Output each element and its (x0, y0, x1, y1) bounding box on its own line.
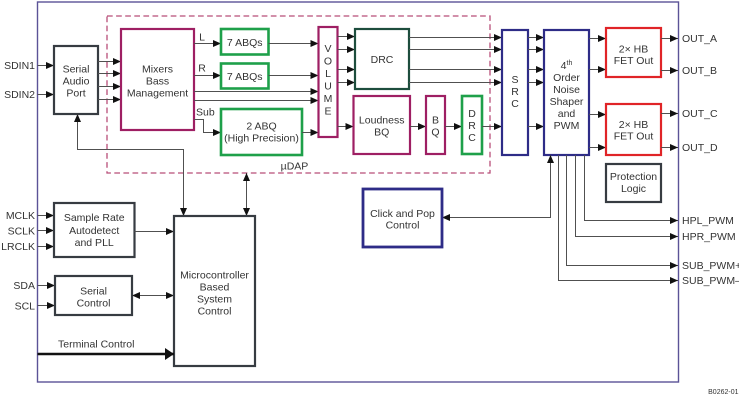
wire SAP to Mixers 2 (98, 73, 121, 75)
svg-text:SCLK: SCLK (8, 226, 35, 238)
svg-text:7 ABQs: 7 ABQs (227, 71, 263, 83)
svg-text:OUT_A: OUT_A (682, 33, 717, 45)
wire VOLUME to DRC 3 (338, 69, 356, 71)
svg-text:HPL_PWM: HPL_PWM (682, 215, 734, 227)
svg-text:Protection: Protection (610, 171, 657, 183)
block BQ (426, 96, 445, 154)
wire NS to FET1 a (589, 38, 606, 40)
wire SRC to NS 2 (528, 49, 544, 51)
svg-text:E: E (324, 106, 331, 118)
svg-text:U: U (324, 81, 332, 93)
svg-text:Mixers: Mixers (142, 64, 173, 76)
svg-text:OUT_C: OUT_C (682, 108, 718, 120)
svg-text:Serial: Serial (80, 286, 107, 298)
wire NS to FET1 b (589, 69, 606, 71)
wire NS to FET2 a (589, 114, 606, 116)
block Protection Logic (606, 164, 661, 202)
wire 2ABQ to VOLUME (302, 132, 319, 134)
svg-text:OUT_D: OUT_D (682, 142, 718, 154)
svg-text:Port: Port (66, 88, 85, 100)
block SRC (502, 30, 528, 155)
wire SAP to Mixers 3 (98, 86, 121, 88)
block Microcontroller Based System Control (174, 216, 255, 366)
svg-text:Click and Pop: Click and Pop (370, 208, 435, 220)
svg-text:B: B (432, 115, 439, 127)
wire Mixers to VOLUME direct 2 (194, 100, 319, 102)
wire SRC to NS 3 (528, 69, 544, 71)
block VOLUME (319, 27, 338, 137)
wire Terminal Control (38, 353, 175, 355)
wire 7ABQs R to VOLUME (269, 75, 319, 77)
svg-text:V: V (324, 43, 331, 55)
wire 7ABQs L to VOLUME (269, 43, 319, 45)
svg-text:LRCLK: LRCLK (1, 241, 35, 253)
svg-text:L: L (325, 68, 331, 80)
svg-text:SUB_PWM+: SUB_PWM+ (682, 260, 739, 272)
svg-text:Control: Control (386, 220, 420, 232)
block Serial Audio Port (54, 46, 98, 114)
wire Mixers R to 7ABQs (194, 75, 221, 77)
svg-text:C: C (468, 132, 476, 144)
wire uDAP to Microcontroller (bidirectional) (246, 173, 248, 216)
wire NS to SUB_PWM- (559, 155, 679, 281)
svg-text:Bass: Bass (146, 76, 169, 88)
svg-text:DRC: DRC (371, 54, 394, 66)
svg-text:L: L (199, 32, 205, 44)
wire Loudness BQ to BQ (410, 126, 426, 128)
wire SDIN2 (38, 94, 55, 96)
wire VOLUME to DRC 1 (338, 36, 356, 38)
wire NS to FET2 b (589, 147, 606, 149)
wire Sample Rate to Microcontroller (135, 231, 175, 233)
svg-text:Q: Q (431, 127, 439, 139)
wire SAP to Microcontroller (bidirectional path) (78, 114, 184, 216)
wire DRC to SRC 2 (409, 49, 502, 51)
svg-text:Logic: Logic (621, 183, 646, 195)
block Serial Control (55, 276, 132, 315)
wire SAP to Mixers 4 (98, 99, 121, 101)
svg-text:BQ: BQ (374, 127, 389, 139)
block 7 ABQs (R) (221, 64, 269, 89)
svg-text:SDIN1: SDIN1 (4, 60, 35, 72)
svg-text:R: R (511, 86, 519, 98)
dashed uDAP region (107, 16, 490, 173)
wire FET1 to OUT_B (661, 70, 678, 72)
block Sample Rate Autodetect and PLL (54, 203, 135, 257)
svg-text:2× HB: 2× HB (619, 44, 648, 56)
svg-text:O: O (324, 56, 332, 68)
wire DRC sub to SRC (482, 126, 502, 128)
svg-text:Management: Management (127, 88, 188, 100)
svg-text:Terminal Control: Terminal Control (58, 339, 134, 351)
wire SDIN1 (38, 65, 55, 67)
svg-text:(High Precision): (High Precision) (224, 133, 299, 145)
wire SRC to NS 5 (sub) (528, 126, 544, 128)
wire NS to HPR_PWM (576, 155, 679, 237)
svg-text:HPR_PWM: HPR_PWM (682, 231, 736, 243)
block 2x HB FET Out (bottom) (606, 104, 661, 155)
wire SAP to Mixers 1 (98, 61, 121, 63)
wire FET2 to OUT_D (661, 147, 678, 149)
wire SRC to NS 4 (528, 82, 544, 84)
svg-text:2 ABQ: 2 ABQ (246, 121, 276, 133)
wire FET2 to OUT_C (661, 113, 678, 115)
svg-text:Sample Rate: Sample Rate (64, 212, 125, 224)
wire VOLUME to DRC 2 (338, 49, 356, 51)
block 7 ABQs (L) (221, 29, 269, 55)
block DRC main (355, 29, 409, 89)
svg-text:Control: Control (198, 306, 232, 318)
wire Mixers to VOLUME direct 1 (194, 91, 319, 93)
wire NS to SUB_PWM+ (567, 155, 679, 266)
block DRC sub (vertical) (462, 96, 482, 154)
wire SCL (38, 305, 56, 307)
svg-text:µDAP: µDAP (281, 161, 309, 173)
svg-text:Order: Order (553, 72, 580, 84)
wire NS to Click and Pop (bidirectional) (442, 155, 551, 218)
svg-text:Shaper: Shaper (550, 96, 584, 108)
svg-text:MCLK: MCLK (6, 210, 35, 222)
block 2x HB FET Out (top) (606, 28, 661, 77)
svg-text:Sub: Sub (196, 107, 215, 119)
wire BQ to DRC sub (445, 126, 462, 128)
wire SDA (38, 285, 56, 287)
svg-text:Microcontroller: Microcontroller (180, 270, 249, 282)
wire Mixers L to 7ABQs (194, 43, 221, 45)
block Mixers Bass Management (121, 29, 194, 130)
svg-text:R: R (198, 63, 206, 75)
svg-text:Autodetect: Autodetect (69, 225, 119, 237)
svg-text:Audio: Audio (63, 76, 90, 88)
svg-text:and PLL: and PLL (75, 237, 114, 249)
wire SRC to NS 1 (528, 37, 544, 39)
svg-text:and: and (558, 108, 576, 120)
block Loudness BQ (354, 96, 411, 154)
wire DRC to SRC 4 (409, 82, 502, 84)
block Click and Pop Control (363, 189, 442, 247)
svg-text:FET Out: FET Out (614, 131, 654, 143)
wire NS to HPL_PWM (585, 155, 679, 221)
svg-text:OUT_B: OUT_B (682, 65, 717, 77)
svg-text:S: S (511, 74, 518, 86)
svg-text:D: D (468, 108, 476, 120)
wire DRC to SRC 3 (409, 69, 502, 71)
svg-text:C: C (511, 98, 519, 110)
svg-text:System: System (197, 294, 232, 306)
block 4th Order Noise Shaper and PWM (544, 30, 589, 155)
wire MCLK (38, 215, 55, 217)
svg-text:FET Out: FET Out (614, 55, 654, 67)
svg-text:Serial: Serial (63, 64, 90, 76)
svg-text:PWM: PWM (554, 120, 580, 132)
svg-text:SUB_PWM–: SUB_PWM– (682, 275, 739, 287)
svg-text:Based: Based (200, 282, 230, 294)
svg-text:2× HB: 2× HB (619, 119, 648, 131)
wire SCLK (38, 230, 55, 232)
wire VOLUME to DRC 4 (338, 82, 356, 84)
svg-text:Noise: Noise (553, 84, 580, 96)
wire Serial Control to Microcontroller (bidirectional) (132, 295, 174, 297)
wire LRCLK (38, 246, 55, 248)
svg-text:M: M (324, 93, 333, 105)
svg-text:SDA: SDA (13, 280, 35, 292)
svg-text:Loudness: Loudness (359, 115, 405, 127)
wire DRC to SRC 1 (409, 37, 502, 39)
svg-text:7 ABQs: 7 ABQs (227, 37, 263, 49)
wire VOLUME to Loudness BQ (338, 126, 354, 128)
svg-text:B0262-01: B0262-01 (708, 389, 738, 395)
wire Mixers Sub to 2ABQ (194, 120, 221, 133)
block 2 ABQ High Precision (221, 109, 302, 155)
wire FET1 to OUT_A (661, 38, 678, 40)
svg-text:R: R (468, 120, 476, 132)
svg-text:SCL: SCL (15, 301, 36, 313)
svg-text:SDIN2: SDIN2 (4, 89, 35, 101)
svg-text:Control: Control (77, 298, 111, 310)
